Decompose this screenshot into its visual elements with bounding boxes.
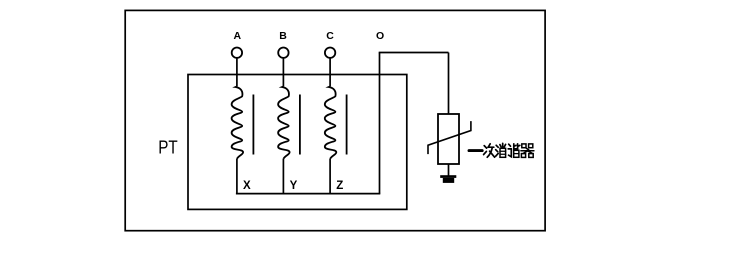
- label 一次消谐器 (drawn glyphs): [469, 143, 534, 157]
- svg-text:B: B: [279, 30, 287, 42]
- wire neutral bus: [236, 193, 380, 195]
- winding B (coil): [278, 86, 290, 158]
- svg-text:O: O: [376, 30, 384, 42]
- svg-text:C: C: [326, 30, 334, 42]
- core C: [346, 95, 348, 155]
- wire terminal A to winding A: [236, 58, 238, 87]
- transformer PT box: [188, 75, 407, 210]
- core A: [252, 95, 254, 155]
- wire winding B bottom to bus: [282, 159, 284, 194]
- wire arrester to ground: [448, 164, 450, 176]
- svg-text:A: A: [234, 30, 242, 42]
- wire winding C bottom to bus: [329, 159, 331, 194]
- svg-text:Z: Z: [336, 180, 343, 192]
- 消: [496, 143, 506, 157]
- varistor (harmonic eliminator) body: [438, 114, 459, 164]
- ground: [440, 175, 456, 183]
- 一: [469, 149, 482, 152]
- 谐: [508, 144, 520, 158]
- svg-text:PT: PT: [158, 138, 178, 158]
- 次: [484, 144, 495, 157]
- svg-text:X: X: [243, 180, 251, 192]
- terminal A: [232, 48, 242, 58]
- svg-text:Y: Y: [290, 180, 298, 192]
- varistor diagonal: [428, 121, 471, 154]
- terminal B: [278, 48, 288, 58]
- wire O to arrester: [379, 52, 449, 54]
- wire terminal C to winding C: [329, 58, 331, 87]
- 器: [521, 144, 534, 158]
- wire winding A bottom to bus: [236, 159, 238, 194]
- terminal C: [325, 48, 335, 58]
- wire down to arrester top: [448, 53, 450, 115]
- wire O riser: [379, 53, 381, 194]
- winding A (coil): [232, 86, 244, 158]
- winding C (coil): [325, 86, 337, 158]
- wire terminal B to winding B: [282, 58, 284, 87]
- core B: [299, 95, 301, 155]
